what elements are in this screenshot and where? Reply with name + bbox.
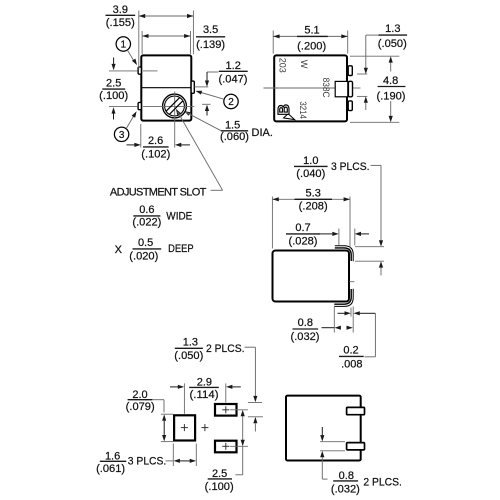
svg-text:4.8: 4.8 bbox=[383, 75, 398, 87]
svg-text:(.139): (.139) bbox=[196, 39, 225, 51]
svg-text:(.100): (.100) bbox=[205, 481, 234, 493]
svg-text:X: X bbox=[115, 244, 123, 256]
svg-text:(.047): (.047) bbox=[219, 73, 248, 85]
svg-text:(.190): (.190) bbox=[377, 91, 406, 103]
svg-text:1.6: 1.6 bbox=[105, 450, 120, 462]
svg-text:DEEP: DEEP bbox=[168, 243, 194, 255]
svg-text:W: W bbox=[299, 60, 309, 69]
svg-text:(.022): (.022) bbox=[132, 217, 161, 229]
svg-text:2.5: 2.5 bbox=[106, 77, 121, 89]
svg-text:(.114): (.114) bbox=[190, 389, 219, 401]
svg-text:ADJUSTMENT SLOT: ADJUSTMENT SLOT bbox=[110, 186, 207, 198]
svg-text:(.061): (.061) bbox=[96, 463, 125, 475]
svg-text:1: 1 bbox=[121, 40, 127, 51]
svg-text:3 PLCS.: 3 PLCS. bbox=[331, 161, 370, 173]
svg-text:(.079): (.079) bbox=[126, 401, 155, 413]
svg-text:WIDE: WIDE bbox=[166, 211, 192, 223]
svg-text:(.200): (.200) bbox=[297, 40, 326, 52]
svg-text:838C: 838C bbox=[321, 78, 331, 98]
svg-text:1.3: 1.3 bbox=[385, 23, 400, 35]
svg-text:2.5: 2.5 bbox=[212, 468, 227, 480]
svg-text:3.9: 3.9 bbox=[113, 4, 128, 16]
svg-text:3214: 3214 bbox=[298, 101, 308, 119]
svg-text:(.020): (.020) bbox=[129, 250, 158, 262]
svg-text:(.032): (.032) bbox=[291, 331, 320, 343]
svg-text:(.060): (.060) bbox=[220, 131, 249, 143]
svg-text:(.208): (.208) bbox=[299, 201, 328, 213]
svg-text:.008: .008 bbox=[341, 359, 362, 371]
svg-text:(.032): (.032) bbox=[331, 483, 360, 495]
svg-text:2.9: 2.9 bbox=[197, 376, 212, 388]
svg-text:2 PLCS.: 2 PLCS. bbox=[206, 343, 245, 355]
svg-text:0.6: 0.6 bbox=[139, 204, 154, 216]
svg-text:0.5: 0.5 bbox=[138, 237, 153, 249]
svg-text:1.5: 1.5 bbox=[225, 119, 240, 131]
svg-text:2.6: 2.6 bbox=[148, 135, 163, 147]
svg-text:0.8: 0.8 bbox=[339, 470, 354, 482]
svg-text:203: 203 bbox=[278, 58, 288, 73]
svg-text:1.3: 1.3 bbox=[183, 337, 198, 349]
svg-text:3: 3 bbox=[119, 130, 125, 141]
svg-text:0.2: 0.2 bbox=[343, 345, 358, 357]
svg-text:(.028): (.028) bbox=[289, 236, 318, 248]
svg-text:(.100): (.100) bbox=[99, 90, 128, 102]
svg-text:2 PLCS.: 2 PLCS. bbox=[363, 477, 402, 489]
svg-text:(.155): (.155) bbox=[106, 17, 135, 29]
svg-text:(.102): (.102) bbox=[141, 149, 170, 161]
svg-text:DIA.: DIA. bbox=[252, 127, 273, 139]
svg-text:1.0: 1.0 bbox=[303, 155, 318, 167]
svg-text:(.050): (.050) bbox=[378, 38, 407, 50]
svg-text:(.050): (.050) bbox=[174, 350, 203, 362]
svg-text:B: B bbox=[276, 104, 293, 115]
svg-text:3.5: 3.5 bbox=[203, 24, 218, 36]
svg-text:1.2: 1.2 bbox=[226, 60, 241, 72]
svg-text:2: 2 bbox=[228, 97, 234, 108]
svg-text:0.7: 0.7 bbox=[295, 222, 310, 234]
svg-text:5.1: 5.1 bbox=[304, 24, 319, 36]
svg-text:0.8: 0.8 bbox=[298, 317, 313, 329]
svg-text:3 PLCS.: 3 PLCS. bbox=[128, 456, 167, 468]
svg-text:(.040): (.040) bbox=[296, 168, 325, 180]
svg-text:5.3: 5.3 bbox=[306, 188, 321, 200]
